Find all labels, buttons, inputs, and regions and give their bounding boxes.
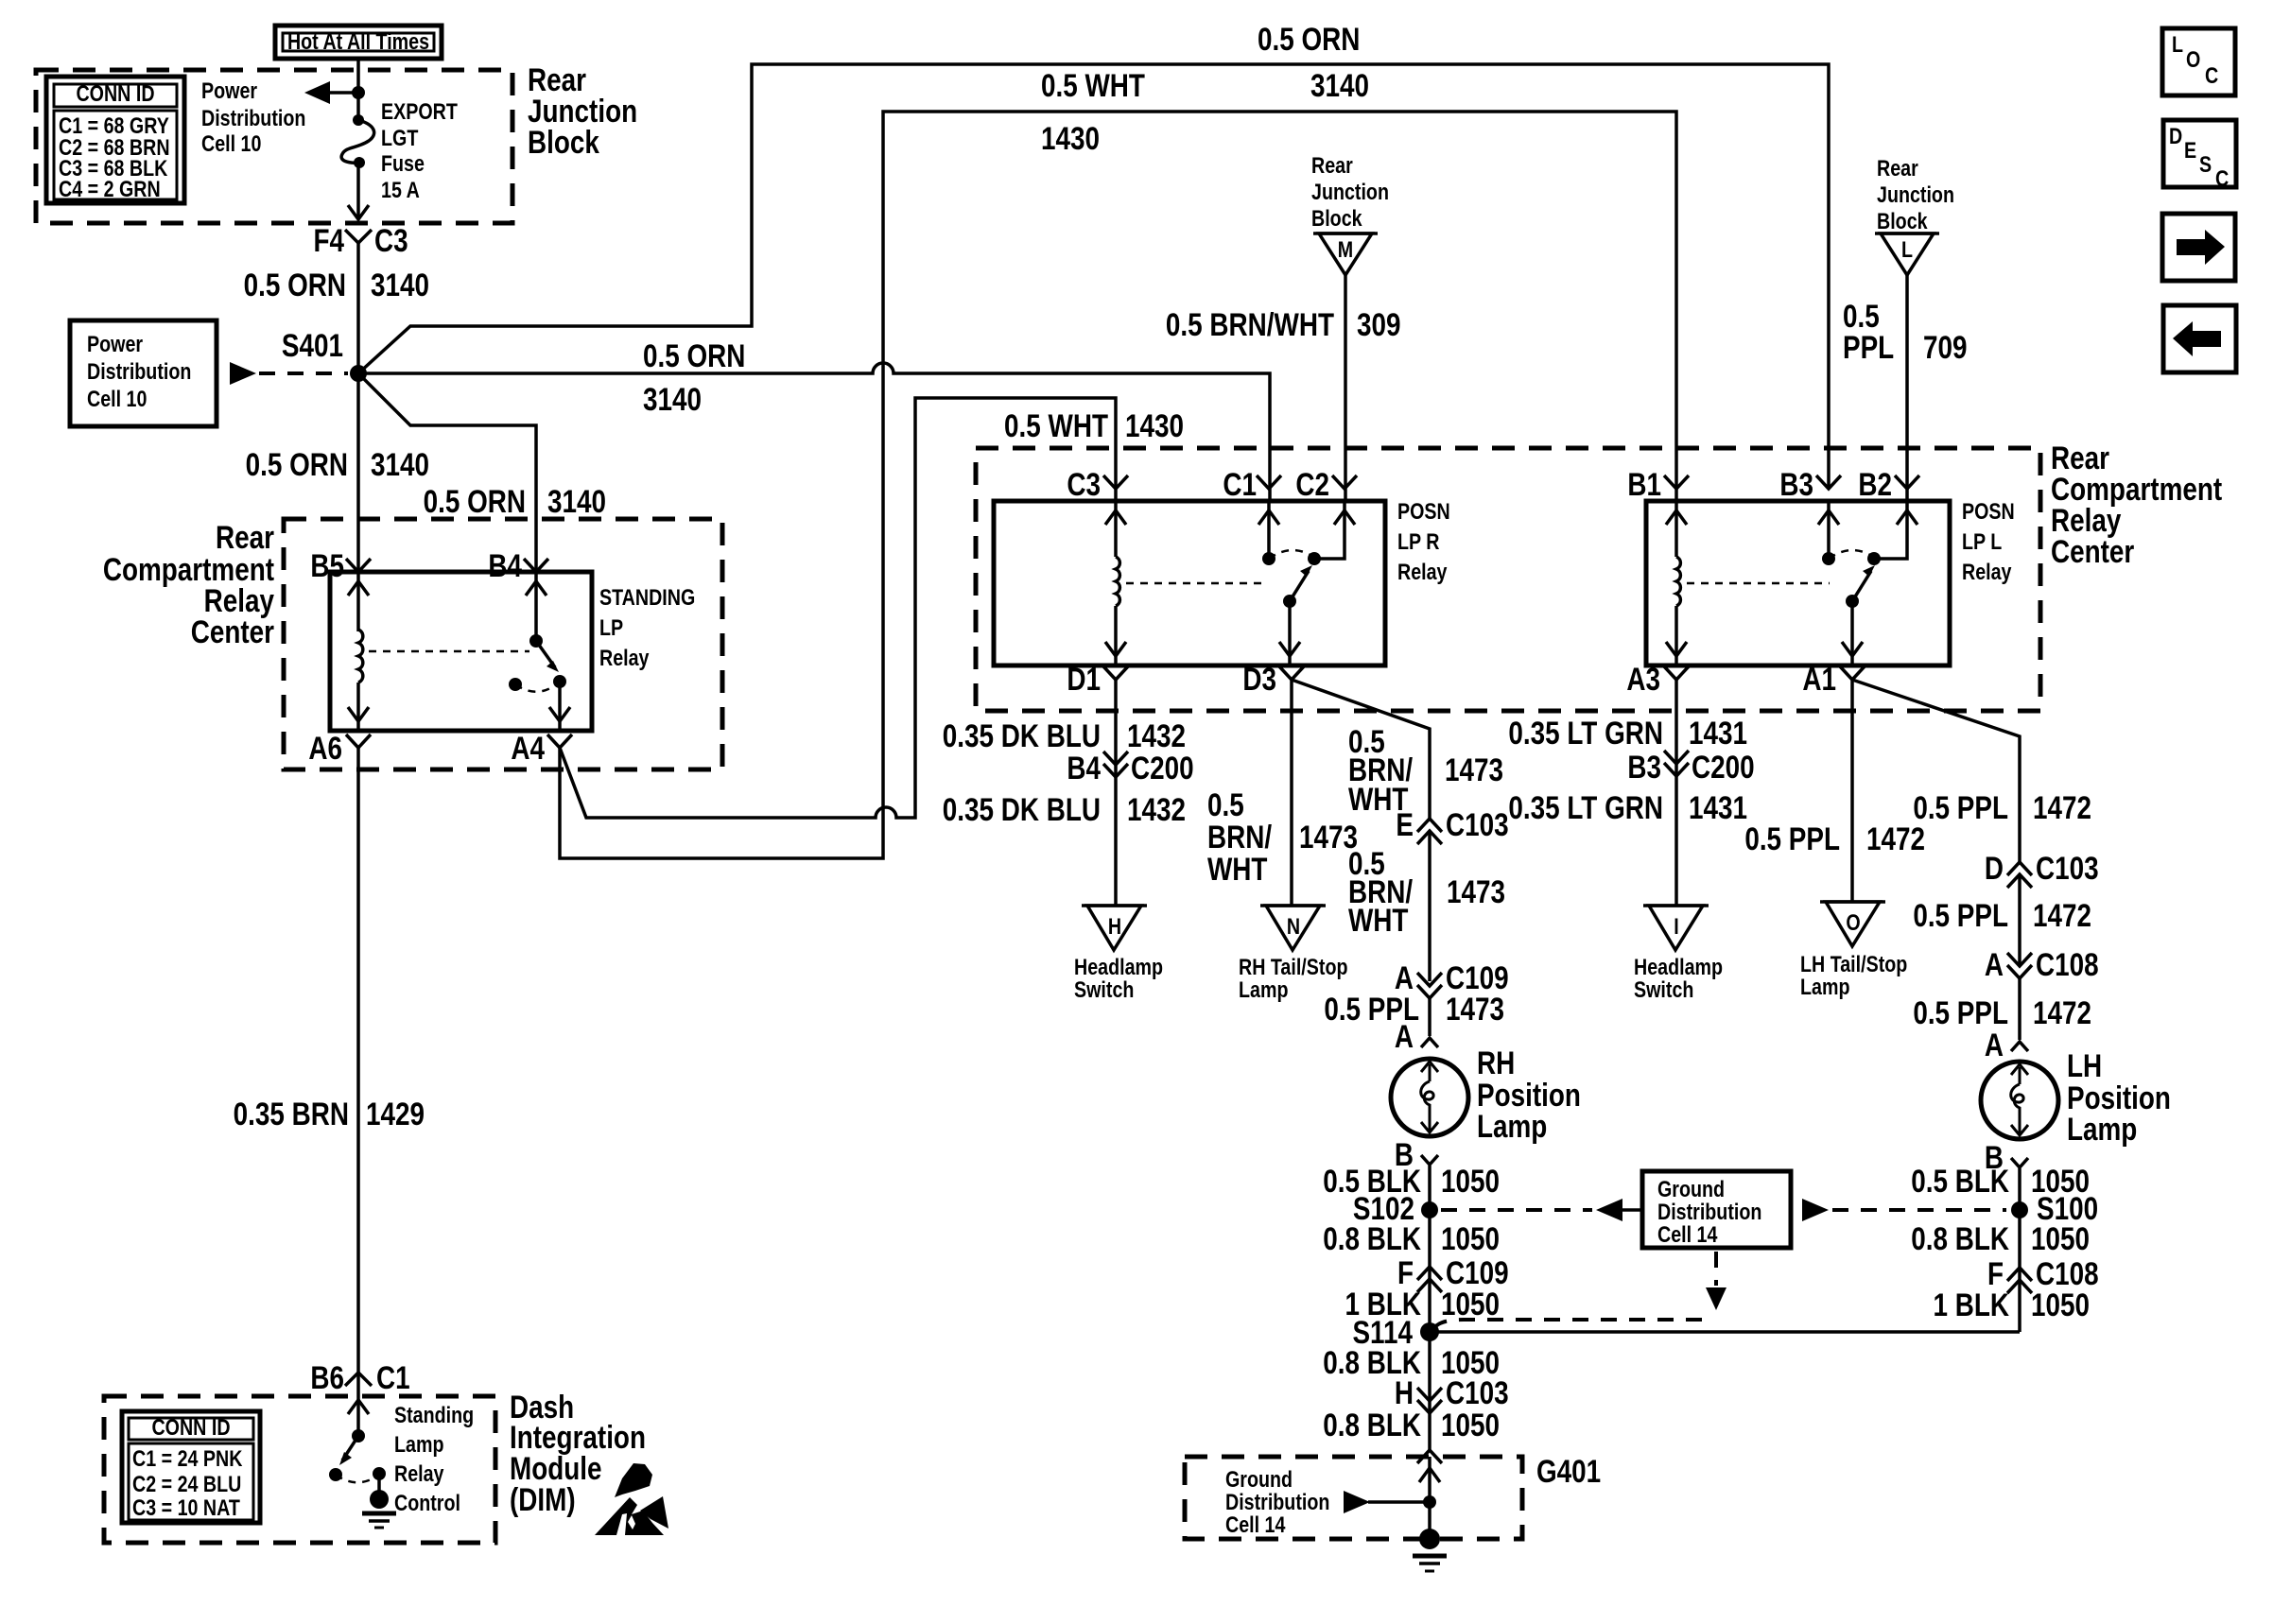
svg-text:C1: C1 xyxy=(1223,466,1257,502)
RH Tail/Stop Lamp label xyxy=(1239,954,1347,1002)
svg-text:0.8 BLK: 0.8 BLK xyxy=(1911,1220,2009,1256)
arrow from Power Distribution box toward S401 xyxy=(230,362,256,385)
svg-text:C1 = 24 PNK: C1 = 24 PNK xyxy=(132,1445,243,1471)
svg-text:CONN ID: CONN ID xyxy=(76,80,154,106)
dashed drop from Ground Distribution box to S114 xyxy=(1433,1252,1726,1330)
svg-text:1430: 1430 xyxy=(1125,407,1184,443)
svg-text:H: H xyxy=(1395,1374,1414,1410)
label 0.5 BLK 1050 (above S100) xyxy=(1911,1163,2090,1199)
svg-text:D1: D1 xyxy=(1067,661,1101,697)
svg-text:LP L: LP L xyxy=(1962,528,2002,554)
splice node S114 xyxy=(1352,1314,1439,1350)
svg-text:PPL: PPL xyxy=(1843,329,1894,365)
svg-text:3140: 3140 xyxy=(547,483,606,519)
svg-text:0.5 BLK: 0.5 BLK xyxy=(1911,1163,2009,1199)
connector A C109 (double chevron down) xyxy=(1395,959,1509,998)
svg-text:0.5 BRN/WHT: 0.5 BRN/WHT xyxy=(1166,306,1334,342)
standing relay switch (B4 to A4) xyxy=(509,572,570,731)
label 1 BLK 1050 xyxy=(1345,1286,1500,1322)
svg-text:0.35 BRN: 0.35 BRN xyxy=(234,1096,349,1132)
svg-text:Junction: Junction xyxy=(1311,179,1389,204)
pin C3 xyxy=(1067,466,1128,502)
svg-text:B4: B4 xyxy=(488,547,522,583)
svg-text:D: D xyxy=(1985,850,2004,886)
arrow to ground wire inside G401 xyxy=(1344,1491,1436,1513)
svg-text:CONN ID: CONN ID xyxy=(151,1414,230,1440)
wire A4 diagonal branch to 0.5 WHT vertical (C3 feed) xyxy=(560,398,1116,818)
svg-text:Rear: Rear xyxy=(1311,152,1353,178)
svg-text:Cell 14: Cell 14 xyxy=(1657,1221,1718,1247)
LOC box xyxy=(2162,28,2235,95)
splice node S100 xyxy=(2011,1190,2098,1226)
triangle connector M xyxy=(1313,233,1378,275)
svg-text:0.35 LT GRN: 0.35 LT GRN xyxy=(1508,715,1663,751)
RH Position Lamp label xyxy=(1477,1045,1581,1144)
triangle connector I xyxy=(1643,906,1709,950)
svg-text:C3: C3 xyxy=(374,222,408,258)
svg-text:0.8 BLK: 0.8 BLK xyxy=(1323,1407,1421,1443)
label 0.5 BLK 1050 (above S102) xyxy=(1323,1163,1500,1199)
Rear Compartment Relay Center dashed box (right) xyxy=(976,448,2040,711)
LH Tail/Stop Lamp label xyxy=(1800,951,1907,999)
label 0.8 BLK 1050 (below S114) xyxy=(1323,1344,1500,1380)
standing relay coil B5-A6 xyxy=(348,572,369,731)
svg-text:0.5 ORN: 0.5 ORN xyxy=(246,446,348,482)
svg-text:Block: Block xyxy=(528,124,600,160)
svg-text:B6: B6 xyxy=(310,1359,344,1395)
svg-text:Block: Block xyxy=(1877,208,1928,233)
connector B3 C200 (double chevron down) xyxy=(1627,749,1754,785)
wire S401 lower-right branch to B4 xyxy=(358,373,536,572)
triangle connector N xyxy=(1260,906,1326,950)
svg-text:C3: C3 xyxy=(1067,466,1101,502)
svg-text:Switch: Switch xyxy=(1074,976,1134,1002)
pin B of LH position lamp xyxy=(1985,1139,2028,1175)
wire A down to LH lamp (0.5 PPL 1472) xyxy=(2018,978,2021,1040)
svg-text:BRN/: BRN/ xyxy=(1207,819,1272,855)
Headlamp Switch label (I) xyxy=(1634,954,1723,1002)
wire E to A (0.5 BRN/WHT 1473) xyxy=(1428,831,1431,981)
svg-text:Switch: Switch xyxy=(1634,976,1693,1002)
svg-text:B2: B2 xyxy=(1858,466,1892,502)
svg-text:O: O xyxy=(1846,909,1860,935)
svg-text:L: L xyxy=(2172,31,2183,57)
svg-text:1 BLK: 1 BLK xyxy=(1933,1287,2009,1322)
svg-text:F4: F4 xyxy=(313,222,344,258)
svg-text:1473: 1473 xyxy=(1445,752,1503,787)
svg-text:Center: Center xyxy=(191,613,274,649)
svg-text:1050: 1050 xyxy=(1441,1163,1500,1199)
svg-text:Relay: Relay xyxy=(394,1460,444,1486)
svg-text:1432: 1432 xyxy=(1127,717,1186,753)
R relay switch (C1/C2/D3) xyxy=(1258,501,1355,665)
svg-text:0.35 DK BLU: 0.35 DK BLU xyxy=(943,791,1101,827)
svg-text:B3: B3 xyxy=(1779,466,1813,502)
standing lamp relay control switch (DIM) xyxy=(329,1373,386,1482)
svg-text:WHT: WHT xyxy=(1348,902,1408,938)
wire A down to RH lamp (0.5 PPL 1473) xyxy=(1428,998,1431,1036)
label 0.5 PPL 1472 (D to A) xyxy=(1913,897,2091,933)
svg-text:Fuse: Fuse xyxy=(381,150,425,176)
connector H C103 (double chevron down) xyxy=(1395,1374,1509,1413)
pin B3 xyxy=(1779,466,1841,502)
svg-text:C3 = 10 NAT: C3 = 10 NAT xyxy=(132,1494,240,1520)
wire A1 down to O triangle (0.5 PPL 1472) xyxy=(1850,680,1854,902)
svg-text:1473: 1473 xyxy=(1447,873,1505,909)
svg-text:1429: 1429 xyxy=(366,1096,425,1132)
svg-text:Lamp: Lamp xyxy=(1239,976,1288,1002)
svg-text:Power: Power xyxy=(201,78,257,103)
standing relay coil-to-switch dashed link xyxy=(369,650,529,653)
svg-text:C200: C200 xyxy=(1131,750,1194,786)
Dash Integration Module dashed box xyxy=(104,1396,495,1543)
svg-text:1050: 1050 xyxy=(1441,1407,1500,1443)
svg-text:0.8 BLK: 0.8 BLK xyxy=(1323,1220,1421,1256)
label 0.35 BRN 1429 xyxy=(234,1096,425,1132)
svg-text:A: A xyxy=(1985,1027,2004,1063)
svg-text:LP: LP xyxy=(599,614,623,640)
svg-text:G401: G401 xyxy=(1536,1453,1601,1489)
ground symbol (relay control) xyxy=(362,1474,396,1528)
svg-text:C2 = 24 BLU: C2 = 24 BLU xyxy=(132,1471,241,1496)
svg-text:Lamp: Lamp xyxy=(2067,1111,2137,1147)
pin A of RH position lamp xyxy=(1395,1018,1438,1054)
svg-text:POSN: POSN xyxy=(1397,498,1450,524)
connector F C109 (double chevron up) xyxy=(1397,1254,1509,1292)
svg-text:3140: 3140 xyxy=(643,381,702,417)
L relay coil B1-A3 xyxy=(1666,501,1687,665)
label 0.5 ORN 3140 xyxy=(244,267,429,302)
right arrow box xyxy=(2162,214,2235,281)
svg-text:C103: C103 xyxy=(1446,1374,1509,1410)
chevron into G401 xyxy=(1417,1450,1442,1463)
pin A4 xyxy=(511,730,572,766)
svg-text:Lamp: Lamp xyxy=(1477,1108,1547,1144)
svg-text:1472: 1472 xyxy=(2033,994,2091,1030)
Power Distribution Cell 10 label (junction block) xyxy=(201,78,305,156)
splice node S401 xyxy=(350,365,367,382)
svg-text:Cell 10: Cell 10 xyxy=(87,386,147,411)
svg-text:0.5 PPL: 0.5 PPL xyxy=(1913,789,2008,825)
wire fuse to junction block edge with down arrow xyxy=(348,163,369,219)
svg-text:A: A xyxy=(1395,1018,1414,1054)
svg-text:Power: Power xyxy=(87,331,143,356)
svg-text:C: C xyxy=(2205,62,2218,88)
svg-text:A1: A1 xyxy=(1802,661,1836,697)
svg-text:D3: D3 xyxy=(1242,661,1276,697)
svg-text:D: D xyxy=(2169,123,2182,148)
svg-text:0.5 PPL: 0.5 PPL xyxy=(1913,994,2008,1030)
svg-text:N: N xyxy=(1287,913,1300,939)
svg-text:0.5: 0.5 xyxy=(1207,786,1244,822)
svg-text:0.5 ORN: 0.5 ORN xyxy=(1258,21,1360,57)
label 0.5 BRN/WHT 1473 (above E) xyxy=(1348,723,1503,817)
connector F C108 (double chevron up) xyxy=(1987,1255,2099,1293)
svg-text:POSN: POSN xyxy=(1962,498,2015,524)
wire L down to B2 (0.5 PPL 709) xyxy=(1905,275,1909,501)
svg-text:M: M xyxy=(1338,236,1353,262)
svg-text:1431: 1431 xyxy=(1689,789,1747,825)
L relay coil-to-switch dashed link xyxy=(1687,582,1830,585)
label 0.5 PPL 1473 xyxy=(1324,991,1504,1027)
Rear Compartment Relay Center dashed box (left) xyxy=(284,519,722,769)
svg-text:B3: B3 xyxy=(1627,749,1661,785)
LH Position Lamp xyxy=(1981,1062,2058,1139)
wire M down to C2 (0.5 BRN/WHT 309) xyxy=(1344,275,1347,501)
svg-text:709: 709 xyxy=(1923,329,1968,365)
connector B4 C200 (double chevron down) xyxy=(1067,750,1193,786)
pin B4 xyxy=(488,547,548,583)
svg-text:3140: 3140 xyxy=(371,446,429,482)
svg-text:3140: 3140 xyxy=(1310,67,1369,103)
svg-text:1432: 1432 xyxy=(1127,791,1186,827)
svg-text:O: O xyxy=(2186,46,2200,72)
label 1 BLK 1050 xyxy=(1933,1287,2090,1322)
svg-text:15 A: 15 A xyxy=(381,177,420,202)
wire S401 up-right branch to 0.5 ORN top run xyxy=(358,64,1829,489)
R relay coil C3-D1 xyxy=(1105,501,1126,665)
triangle connector H xyxy=(1082,906,1147,950)
L relay switch (B3/B2/A1) xyxy=(1818,501,1917,665)
svg-text:Lamp: Lamp xyxy=(394,1431,443,1457)
Rear Junction Block label (above M) xyxy=(1311,152,1389,231)
svg-text:Center: Center xyxy=(2051,533,2134,569)
svg-text:Relay: Relay xyxy=(1962,559,2012,584)
svg-text:1050: 1050 xyxy=(1441,1220,1500,1256)
POSN LP L Relay box xyxy=(1646,501,1950,665)
label 0.35 LT GRN 1431 (below C200) xyxy=(1508,789,1747,825)
POSN LP L Relay label xyxy=(1962,498,2015,584)
svg-text:E: E xyxy=(1396,806,1414,842)
svg-text:Junction: Junction xyxy=(1877,181,1954,207)
connector B6 / C1 xyxy=(310,1359,409,1395)
label 0.5 ORN 3140 (B4 branch) xyxy=(424,483,606,519)
connector A C108 (double chevron down) xyxy=(1985,946,2099,982)
svg-text:A3: A3 xyxy=(1626,661,1660,697)
Rear Junction Block label (above L) xyxy=(1877,155,1954,233)
wire D3 down to N triangle (0.5 BRN/WHT 1473) xyxy=(1290,680,1293,906)
pin A6 xyxy=(308,730,371,766)
wire S401 horizontal branch to C1 with hop over WHT wire xyxy=(358,363,1270,501)
Rear Compartment Relay Center label (right) xyxy=(2051,440,2222,569)
svg-text:B4: B4 xyxy=(1067,750,1101,786)
svg-text:RH: RH xyxy=(1477,1045,1515,1080)
svg-text:LGT: LGT xyxy=(381,125,419,150)
pin C1 xyxy=(1223,466,1281,502)
label 0.5 BRN/WHT 309 xyxy=(1166,306,1401,342)
svg-text:C2: C2 xyxy=(1295,466,1329,502)
svg-text:Block: Block xyxy=(1311,205,1362,231)
dashed wire to S100 xyxy=(1832,1208,2006,1212)
svg-text:Relay: Relay xyxy=(1397,559,1448,584)
svg-text:B5: B5 xyxy=(310,547,344,583)
svg-text:C: C xyxy=(2215,165,2229,191)
label 0.5 BRN/WHT 1473 (N branch) xyxy=(1207,786,1358,887)
label 0.5 PPL 1472 (lamp feed) xyxy=(1913,994,2091,1030)
G401 dashed box xyxy=(1185,1457,1522,1539)
svg-text:1430: 1430 xyxy=(1041,120,1100,156)
svg-text:Hot At All Times: Hot At All Times xyxy=(287,28,429,54)
svg-text:1472: 1472 xyxy=(2033,789,2091,825)
wire S401 down to B5 xyxy=(356,373,360,572)
svg-text:0.5 WHT: 0.5 WHT xyxy=(1041,67,1145,103)
pin A1 xyxy=(1802,661,1865,697)
svg-text:WHT: WHT xyxy=(1207,851,1267,887)
svg-text:Relay: Relay xyxy=(599,645,650,670)
CONN ID table (DIM) xyxy=(122,1411,260,1523)
pin A of LH position lamp xyxy=(1985,1027,2028,1063)
svg-text:I: I xyxy=(1674,913,1678,939)
CONN ID table (junction block) xyxy=(46,77,184,203)
svg-text:1050: 1050 xyxy=(2031,1287,2090,1322)
connector F4 / C3 xyxy=(313,222,408,258)
wire RH lamp B down to S102 xyxy=(1428,1166,1431,1332)
Rear Junction Block dashed boundary xyxy=(36,70,512,223)
pin B of RH position lamp xyxy=(1395,1136,1438,1172)
wire S114 down to G401 xyxy=(1428,1332,1431,1450)
svg-text:LP R: LP R xyxy=(1397,528,1440,554)
svg-text:0.5 PPL: 0.5 PPL xyxy=(1744,821,1840,856)
svg-text:(DIM): (DIM) xyxy=(510,1481,576,1517)
LH Position Lamp label xyxy=(2067,1047,2171,1147)
triangle connector O xyxy=(1820,902,1885,946)
label 0.5 PPL 1472 (O branch) xyxy=(1744,821,1925,856)
dashed wire to S401 xyxy=(259,371,348,375)
svg-text:C4 = 2 GRN: C4 = 2 GRN xyxy=(59,176,161,201)
STANDING LP Relay label xyxy=(599,584,695,670)
svg-text:L: L xyxy=(1901,236,1913,262)
svg-text:LH: LH xyxy=(2067,1047,2102,1083)
wire D3 diagonal branch to E column xyxy=(1292,680,1430,819)
triangle connector L xyxy=(1875,233,1939,275)
Ground Distribution Cell 14 box xyxy=(1642,1171,1791,1248)
svg-text:1050: 1050 xyxy=(1441,1286,1500,1322)
svg-text:C200: C200 xyxy=(1692,749,1755,785)
svg-text:0.5 ORN: 0.5 ORN xyxy=(643,337,745,373)
pin D3 xyxy=(1242,661,1304,697)
wire D to A (0.5 PPL 1472) xyxy=(2018,874,2021,966)
label 0.5 WHT 1430 (C3 feed) xyxy=(1004,407,1184,443)
label 0.8 BLK 1050 (below S100) xyxy=(1911,1220,2090,1256)
label 0.5 ORN / 3140 (S401 to C1) xyxy=(643,337,745,417)
svg-text:Distribution: Distribution xyxy=(87,358,191,384)
svg-text:0.5 ORN: 0.5 ORN xyxy=(424,483,526,519)
wire from Hot At All Times down to fuse xyxy=(356,59,360,118)
Power Distribution Cell 10 box (left) xyxy=(70,320,217,426)
STANDING LP Relay box xyxy=(330,572,592,731)
svg-text:STANDING: STANDING xyxy=(599,584,695,610)
svg-text:0.5 WHT: 0.5 WHT xyxy=(1004,407,1108,443)
arrow out of Ground Distribution box (right) xyxy=(1802,1199,1829,1221)
svg-text:A6: A6 xyxy=(308,730,342,766)
wire 0.5 ORN 3140 from F4/C3 to S401 xyxy=(356,243,360,373)
label 0.5 PPL 1472 (above D) xyxy=(1913,789,2091,825)
svg-text:0.35 DK BLU: 0.35 DK BLU xyxy=(943,717,1101,753)
left arrow to Power Distribution xyxy=(304,81,358,104)
arrow into Ground Distribution box (left) xyxy=(1596,1199,1622,1221)
svg-text:Cell 14: Cell 14 xyxy=(1225,1512,1286,1537)
POSN LP R Relay box xyxy=(994,501,1385,665)
wire D1 down to H triangle (0.35 DK BLU 1432) xyxy=(1114,680,1118,906)
ESD sensitive device logo xyxy=(595,1463,668,1535)
label 0.8 BLK 1050 (above G401) xyxy=(1323,1407,1500,1443)
svg-text:A4: A4 xyxy=(511,730,545,766)
svg-text:1472: 1472 xyxy=(1866,821,1925,856)
dashed wire S102 to Ground Distribution box xyxy=(1441,1208,1592,1212)
svg-text:Standing: Standing xyxy=(394,1402,474,1427)
connector E C103 (double chevron up) xyxy=(1396,806,1508,844)
pin D1 xyxy=(1067,661,1128,697)
svg-text:B1: B1 xyxy=(1627,466,1661,502)
svg-text:1431: 1431 xyxy=(1689,715,1747,751)
POSN LP R Relay label xyxy=(1397,498,1450,584)
Rear Junction Block label xyxy=(528,61,637,160)
svg-text:1472: 1472 xyxy=(2033,897,2091,933)
R relay coil-to-switch dashed link xyxy=(1126,582,1267,585)
Standing Lamp Relay Control label xyxy=(394,1402,474,1515)
pin B2 xyxy=(1858,466,1919,502)
pin B1 xyxy=(1627,466,1689,502)
label 0.5 PPL 709 xyxy=(1843,298,1968,365)
svg-text:1050: 1050 xyxy=(2031,1220,2090,1256)
svg-text:C1: C1 xyxy=(376,1359,410,1395)
svg-text:Distribution: Distribution xyxy=(201,105,305,130)
svg-text:C108: C108 xyxy=(2036,946,2099,982)
pin A3 xyxy=(1626,661,1689,697)
svg-text:C103: C103 xyxy=(1446,806,1509,842)
DESC box xyxy=(2163,120,2236,191)
label 0.35 LT GRN 1431 (above C200) xyxy=(1508,715,1747,751)
svg-text:Control: Control xyxy=(394,1490,460,1515)
wire A4 down branch to 0.5 WHT top run xyxy=(560,112,1676,858)
label 0.8 BLK 1050 (below S102) xyxy=(1323,1220,1500,1256)
svg-text:3140: 3140 xyxy=(371,267,429,302)
label 0.35 DK BLU 1432 (above C200) xyxy=(943,717,1186,753)
fuse EXPORT LGT 15A xyxy=(341,114,374,168)
Rear Compartment Relay Center label (left) xyxy=(103,519,275,649)
splice node S102 xyxy=(1353,1190,1438,1226)
label 0.5 BRN/WHT 1473 (E to A) xyxy=(1348,845,1505,938)
svg-text:Rear: Rear xyxy=(216,519,274,555)
svg-text:A: A xyxy=(1985,946,2004,982)
ground wire with up arrow inside G401 xyxy=(1419,1457,1440,1531)
Headlamp Switch label (H) xyxy=(1074,954,1163,1002)
ground symbol G401 xyxy=(1413,1529,1447,1571)
svg-text:0.35 LT GRN: 0.35 LT GRN xyxy=(1508,789,1663,825)
wire A3 down to I triangle (0.35 LT GRN 1431) xyxy=(1674,680,1678,906)
svg-text:0.5 PPL: 0.5 PPL xyxy=(1913,897,2008,933)
svg-text:C103: C103 xyxy=(2036,850,2099,886)
Hot At All Times box xyxy=(275,26,442,59)
junction dot to power distribution arrow xyxy=(352,86,365,99)
Ground Distribution Cell 14 label (G401) xyxy=(1225,1466,1329,1537)
wire A6 down to B6/C1 xyxy=(356,748,360,1373)
svg-text:Rear: Rear xyxy=(1877,155,1918,181)
Dash Integration Module (DIM) label xyxy=(510,1389,646,1517)
wire A1 diagonal branch to LH lamp column xyxy=(1852,680,2020,862)
svg-text:1473: 1473 xyxy=(1446,991,1504,1027)
label 0.35 DK BLU 1432 (below C200) xyxy=(943,791,1186,827)
pin B5 xyxy=(310,547,371,583)
wire from LH column to S114 (1 BLK 1050) xyxy=(1430,1330,2020,1334)
svg-text:S: S xyxy=(2199,151,2212,177)
wire LH lamp B down to S100 xyxy=(2018,1168,2021,1332)
RH Position Lamp xyxy=(1391,1059,1468,1136)
svg-text:Lamp: Lamp xyxy=(1800,974,1849,999)
left arrow box xyxy=(2163,305,2236,372)
svg-text:Cell 10: Cell 10 xyxy=(201,130,261,156)
svg-text:H: H xyxy=(1108,913,1121,939)
